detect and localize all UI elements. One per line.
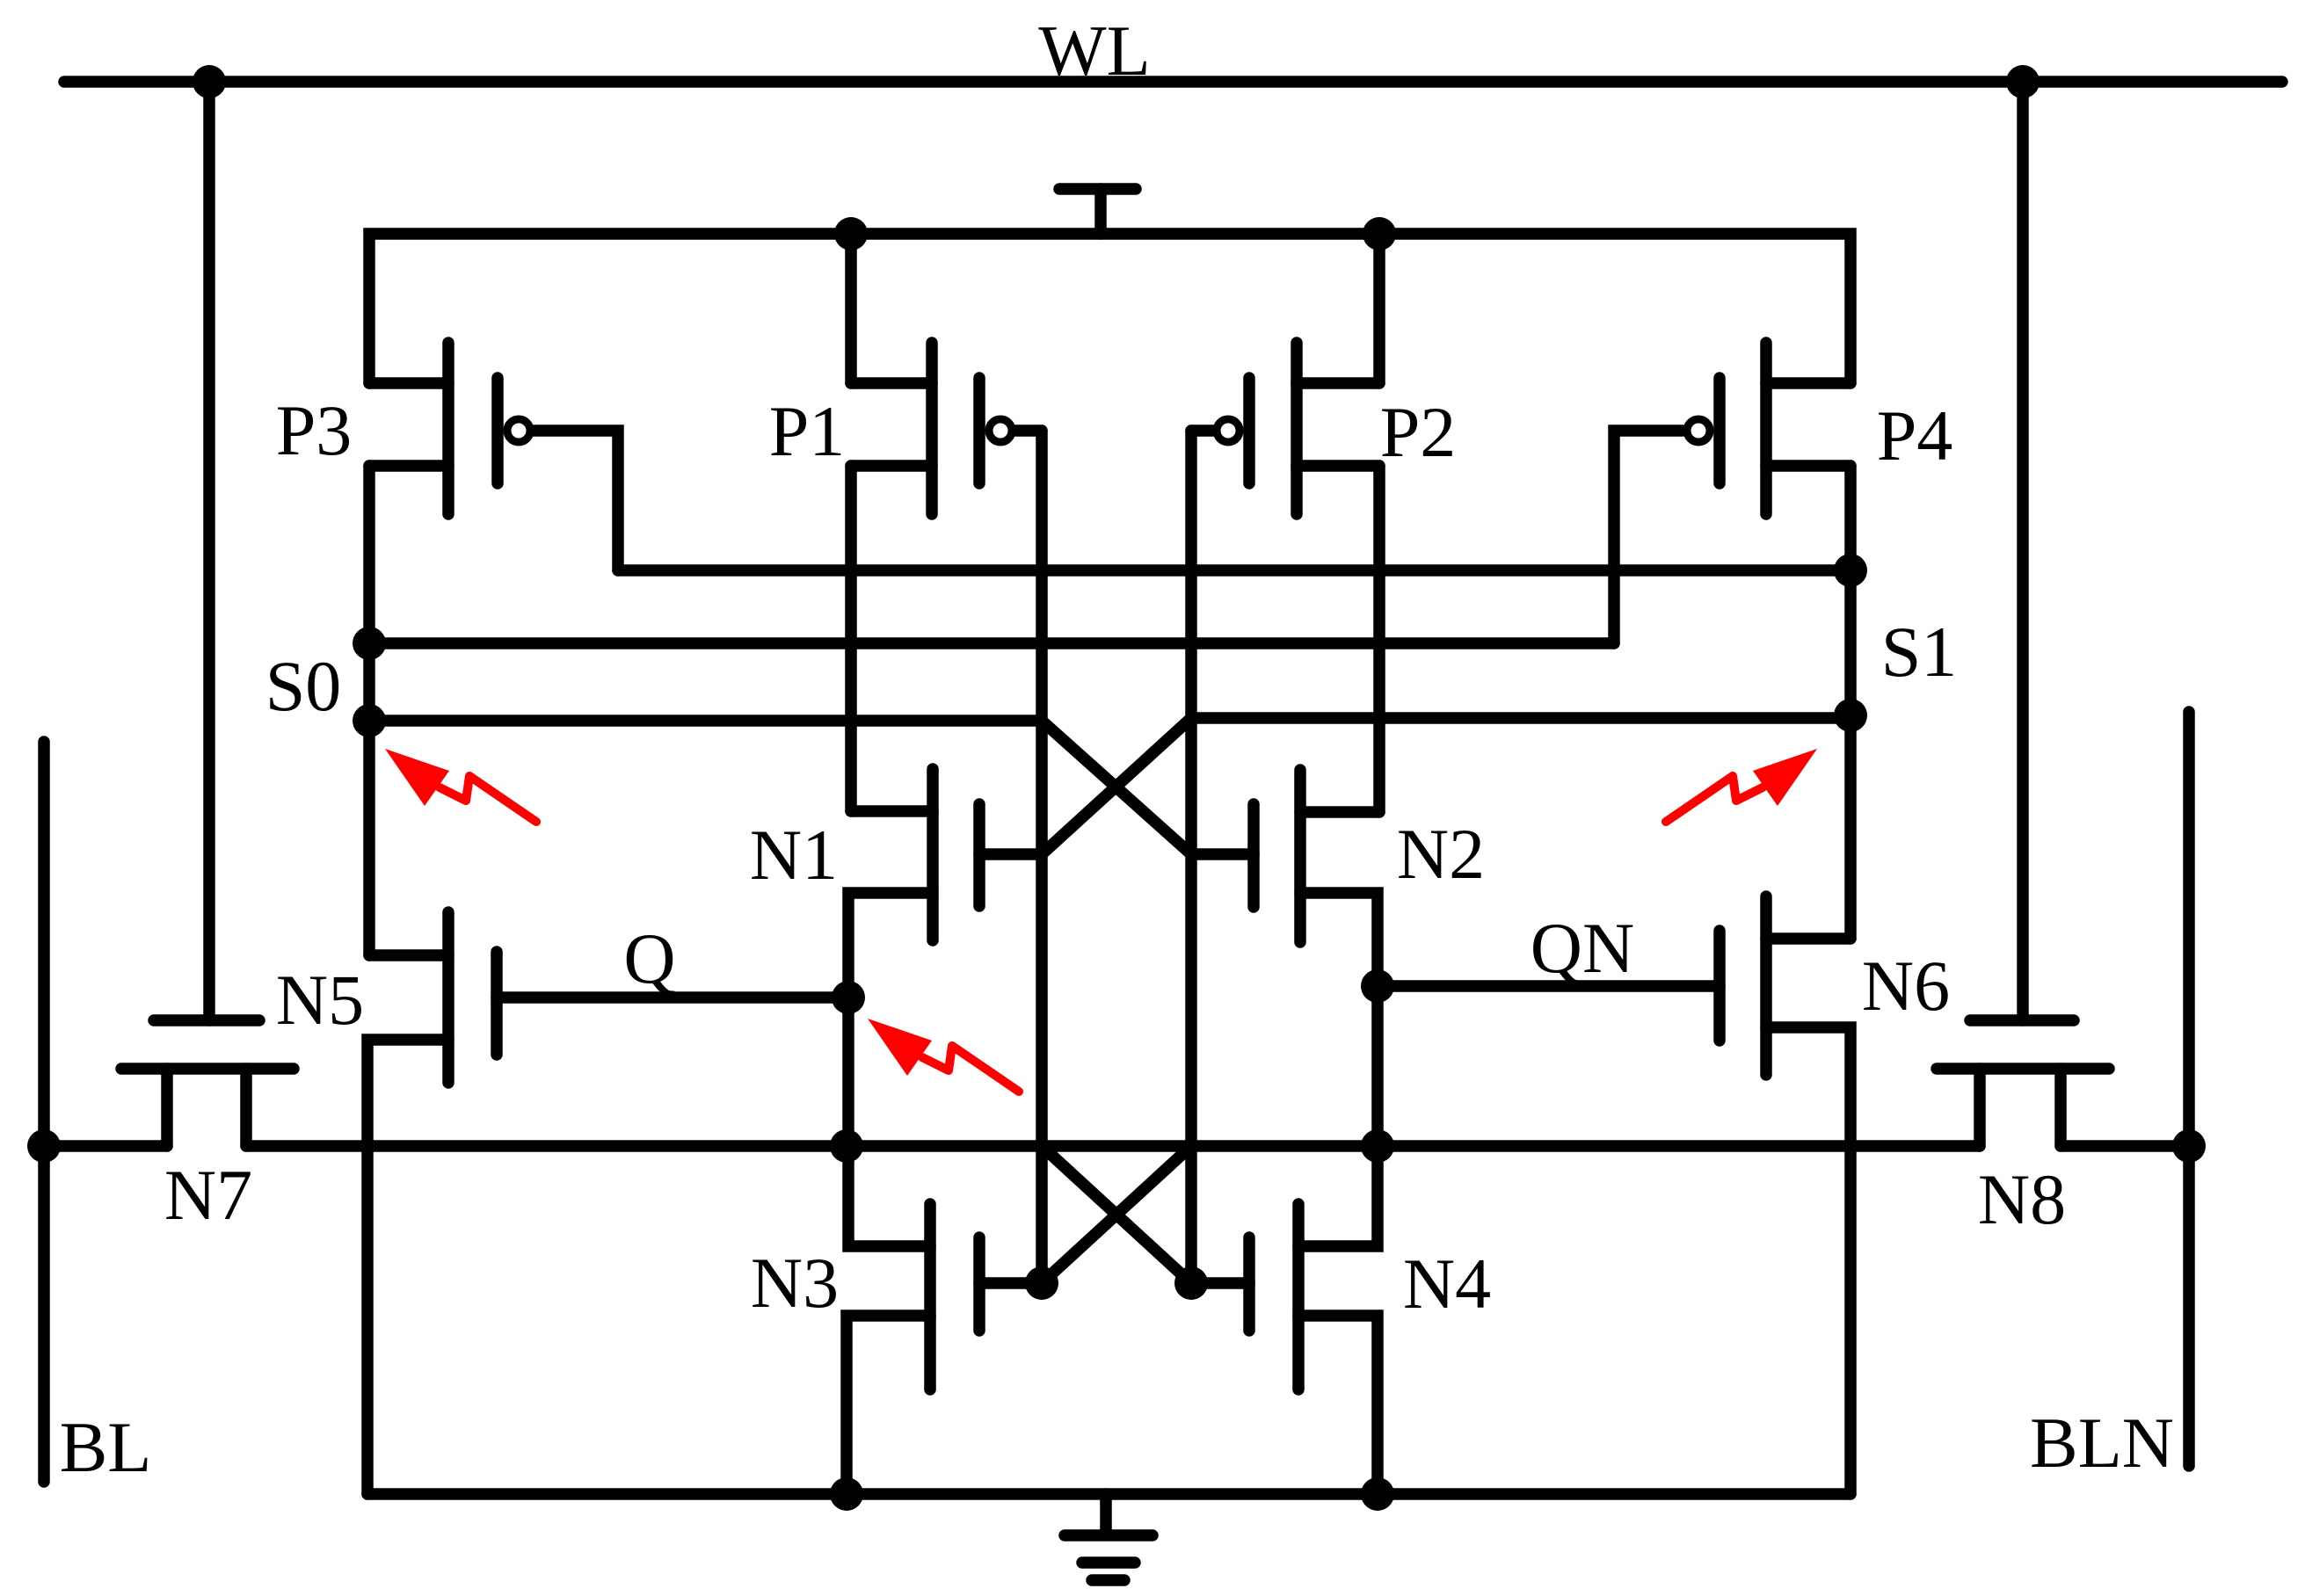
- svg-text:P3: P3: [276, 390, 353, 470]
- svg-text:BLN: BLN: [2030, 1403, 2174, 1483]
- svg-text:WL: WL: [1038, 11, 1150, 91]
- svg-text:P1: P1: [769, 391, 846, 471]
- svg-text:N1: N1: [750, 815, 838, 895]
- svg-text:P4: P4: [1877, 395, 1953, 475]
- svg-text:BL: BL: [60, 1407, 152, 1487]
- svg-text:N7: N7: [164, 1155, 252, 1235]
- svg-text:N4: N4: [1403, 1244, 1491, 1324]
- svg-text:N5: N5: [276, 960, 364, 1040]
- svg-text:P2: P2: [1380, 392, 1457, 472]
- svg-text:S1: S1: [1881, 612, 1958, 692]
- svg-text:N2: N2: [1397, 814, 1485, 894]
- svg-text:S0: S0: [265, 646, 342, 726]
- svg-text:N3: N3: [751, 1243, 839, 1323]
- svg-text:N6: N6: [1862, 946, 1950, 1026]
- svg-text:QN: QN: [1531, 908, 1634, 988]
- svg-text:N8: N8: [1978, 1159, 2066, 1239]
- svg-text:Q: Q: [623, 918, 675, 998]
